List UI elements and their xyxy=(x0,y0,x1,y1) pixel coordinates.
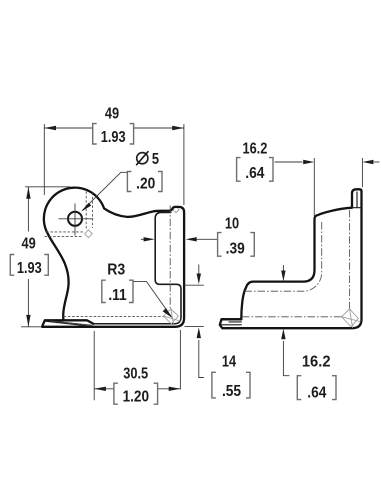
svg-text:.64: .64 xyxy=(245,164,265,182)
bottom inner thickness line xyxy=(93,317,181,324)
hidden bend line horizontal pair xyxy=(46,231,83,233)
top edge under tab xyxy=(352,207,362,209)
outline: lobe arc + top S-edge + right edge + R3 corner + bottom edge + hem xyxy=(42,188,184,327)
tab inner line xyxy=(356,192,358,207)
small bend patch near hole xyxy=(85,230,93,238)
svg-text:16.2: 16.2 xyxy=(302,353,331,371)
svg-text:1.93: 1.93 xyxy=(17,260,42,278)
svg-text:.64: .64 xyxy=(307,384,327,402)
svg-text:.20: .20 xyxy=(136,174,155,192)
hole centerline vertical xyxy=(74,204,76,236)
left S-curve edge xyxy=(48,235,68,321)
channel inner left line with corners xyxy=(155,212,181,317)
svg-text:.11: .11 xyxy=(108,286,126,304)
svg-text:.55: .55 xyxy=(222,382,241,400)
hem second diagonal xyxy=(50,321,93,326)
svg-text:49: 49 xyxy=(21,235,35,253)
lip top line xyxy=(222,318,242,320)
lip short inner line xyxy=(229,321,241,323)
small bend patch at top step xyxy=(173,207,179,213)
lip mid line xyxy=(220,324,242,326)
svg-text:5: 5 xyxy=(152,151,159,169)
outline side view xyxy=(220,189,362,328)
svg-text:R3: R3 xyxy=(107,261,125,279)
hem inner diagonal xyxy=(45,321,90,326)
hole centerline horizontal xyxy=(59,218,94,220)
svg-text:1.93: 1.93 xyxy=(101,129,126,147)
svg-text:.39: .39 xyxy=(226,240,245,258)
svg-text:1.20: 1.20 xyxy=(123,388,149,405)
inner bend dash-dot: vertical + arc + horizontal xyxy=(245,222,322,291)
hidden bend line vertical pair xyxy=(85,192,87,229)
svg-text:14: 14 xyxy=(222,353,236,371)
svg-text:49: 49 xyxy=(105,105,119,123)
outer bend dash-dot horizontal xyxy=(242,316,341,318)
side bend diamond with X xyxy=(342,309,361,328)
svg-text:16.2: 16.2 xyxy=(242,140,267,158)
hole circle xyxy=(68,212,82,226)
bottom-right bend diamond with X xyxy=(164,309,182,326)
bottom hidden bend line xyxy=(64,316,165,318)
channel centerline dash-dot xyxy=(169,206,171,310)
svg-text:30.5: 30.5 xyxy=(123,365,148,383)
outer bend dash-dot vertical xyxy=(349,210,351,309)
svg-text:10: 10 xyxy=(225,215,239,233)
